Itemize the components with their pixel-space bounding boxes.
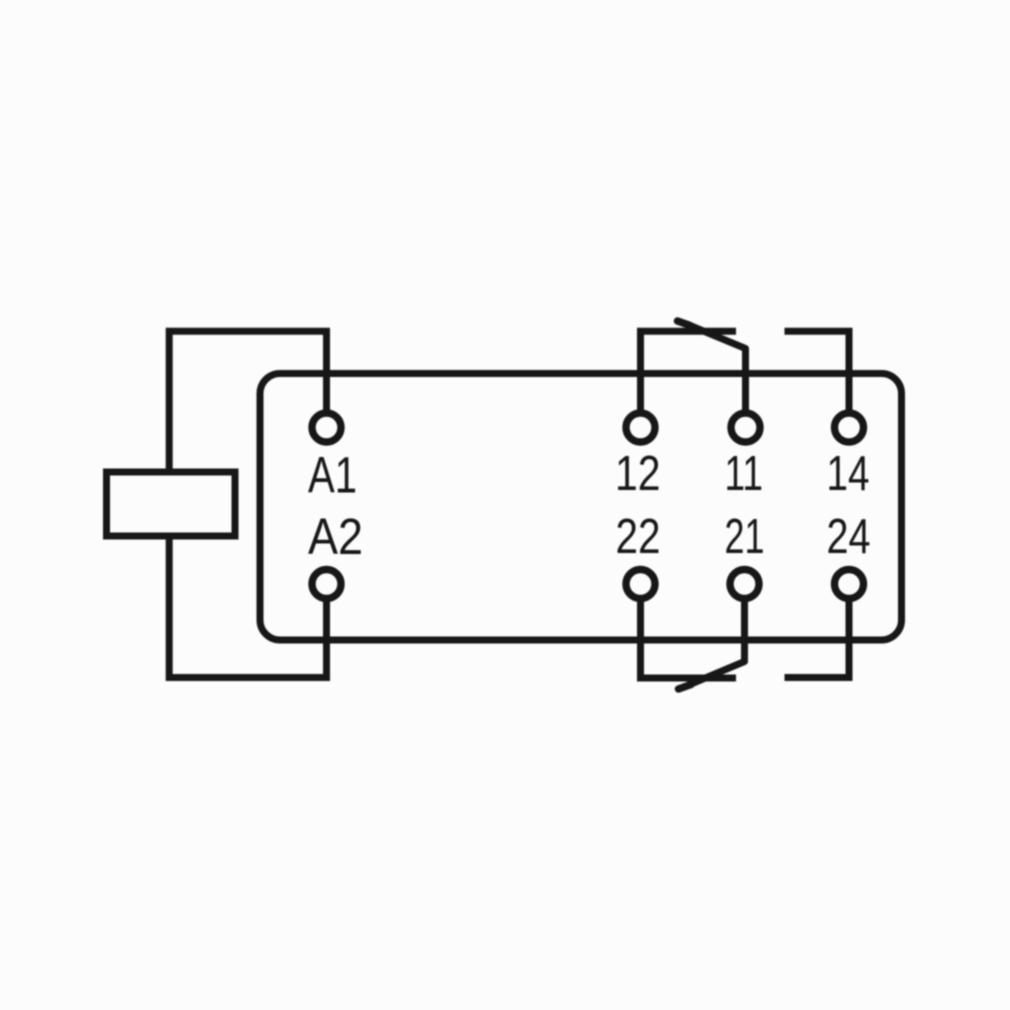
terminal 21 — [730, 570, 759, 599]
svg-text:21: 21 — [725, 509, 765, 564]
svg-text:12: 12 — [615, 446, 661, 501]
svg-text:24: 24 — [827, 509, 871, 564]
contact blade bottom tip tick — [679, 685, 692, 690]
terminal 14 — [835, 413, 864, 442]
terminal A2 — [312, 570, 341, 599]
terminal 24 — [835, 570, 864, 599]
coil K1 — [107, 472, 236, 536]
svg-text:A2: A2 — [308, 508, 363, 565]
contact blade top (changeover, closed to 12) — [687, 324, 746, 349]
wire coil top loop: A1 lead up, left, down to coil — [169, 331, 326, 472]
wire common leg 11 up — [742, 349, 749, 411]
svg-text:22: 22 — [616, 509, 661, 564]
relay body outline — [260, 374, 902, 641]
terminal A1 — [312, 413, 341, 442]
wire NO leg 24: left stub and down — [785, 601, 850, 678]
terminal 12 — [626, 413, 655, 442]
terminal 11 — [731, 413, 760, 442]
svg-text:A1: A1 — [308, 447, 357, 504]
wire coil bottom loop: coil bottom down, right, up to A2 lead — [169, 536, 326, 678]
wire NC leg 22: down and right — [641, 601, 737, 678]
wire common leg 21 down — [741, 601, 748, 662]
contact blade top tip tick — [678, 321, 691, 326]
wire NC leg 12: up and right — [641, 331, 737, 410]
svg-text:14: 14 — [827, 446, 870, 501]
contact blade bottom (changeover, closed to 22) — [688, 662, 745, 686]
wire NO leg 14: left stub and down — [785, 331, 850, 410]
terminal 22 — [626, 570, 655, 599]
svg-text:11: 11 — [725, 446, 764, 501]
